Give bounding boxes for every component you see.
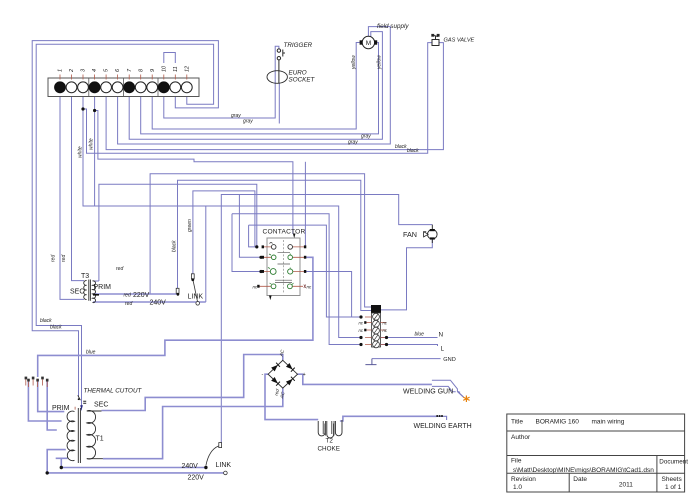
wire 220V bus: [47, 472, 223, 474]
svg-text:Date: Date: [573, 476, 587, 483]
wire T3 prim top riser: [93, 184, 257, 281]
fan symbol: [424, 225, 438, 243]
wire t3 white down to mid bus: [83, 93, 361, 338]
wire green loop LINK to contactor row1: [193, 191, 255, 275]
wire T1 link riser loop to fan: [221, 195, 432, 444]
svg-text:SEC: SEC: [94, 402, 108, 409]
svg-text:LINK: LINK: [188, 294, 204, 301]
title block frame: [507, 414, 685, 492]
gas valve: [432, 34, 439, 45]
svg-text:+: +: [303, 372, 306, 378]
euro socket ellipse: [267, 71, 287, 84]
wire T3 prim 220V tap: [93, 293, 177, 295]
wire T3 prim 240V tap: [93, 301, 206, 303]
junction dot t3: [81, 107, 84, 110]
svg-text:blue: blue: [415, 332, 425, 338]
svg-text:Document: Document: [659, 459, 688, 466]
svg-text:SOCKET: SOCKET: [289, 77, 316, 84]
svg-text:TRIGGER: TRIGGER: [284, 42, 313, 49]
wire GND: [372, 358, 441, 360]
welding gun: [432, 380, 464, 397]
LINK switch upper: [191, 274, 199, 305]
wire t8 to motor right brush: [141, 43, 379, 134]
wire t9 to motor left brush: [152, 43, 359, 130]
svg-text:Author: Author: [511, 434, 531, 441]
svg-text:T1: T1: [96, 436, 104, 443]
motor M: [360, 36, 378, 48]
svg-text:220V: 220V: [188, 475, 205, 482]
svg-text:black: black: [407, 148, 419, 154]
svg-text:EURO: EURO: [289, 70, 307, 77]
jumper terminal 10-11: [164, 53, 176, 64]
svg-text:PRIM: PRIM: [94, 284, 112, 291]
bus junction dots: [60, 466, 63, 469]
welding earth clamp: [436, 415, 446, 420]
wire t4 branch to contactor top: [95, 111, 293, 235]
svg-text:Revision: Revision: [511, 476, 536, 483]
contactor row4 nc contacts: [257, 283, 306, 289]
svg-text:10: 10: [161, 65, 167, 72]
wire trigger lower to euro socket: [278, 60, 280, 84]
wire T1 sec top to bridge AC top: [102, 355, 283, 411]
terminal number ticks: [60, 75, 187, 80]
contactor junction dots: [255, 245, 258, 248]
ground symbol: [365, 359, 376, 365]
svg-text:field supply: field supply: [377, 23, 409, 30]
wire t6 to field supply outer: [118, 27, 391, 144]
svg-text:black: black: [40, 318, 52, 324]
thermal cutout symbol: [75, 395, 86, 410]
svg-text:T3: T3: [81, 273, 89, 280]
svg-text:nc: nc: [253, 285, 259, 290]
svg-text:red: red: [116, 266, 123, 272]
T3 transformer: [84, 280, 96, 303]
svg-text:CHOKE: CHOKE: [318, 446, 340, 453]
contactor top pin arrow: [293, 234, 296, 239]
T3 prim 220V tap mark: [93, 294, 99, 296]
svg-text:green: green: [187, 219, 193, 232]
connector pins: [25, 377, 49, 387]
svg-text:s\Matt\Desktop\MINE\migs\BORAM: s\Matt\Desktop\MINE\migs\BORAMIG\tCad1.d…: [513, 467, 654, 474]
svg-text:gray: gray: [231, 113, 241, 119]
svg-text:red: red: [61, 255, 67, 262]
svg-text:red: red: [51, 255, 57, 262]
terminal numbers: [58, 65, 191, 73]
svg-text:N: N: [439, 332, 444, 339]
svg-text:2011: 2011: [619, 482, 633, 489]
wire bridge plus to welding gun: [298, 374, 432, 384]
svg-text:BORAMIG 160: BORAMIG 160: [536, 419, 580, 426]
svg-text:gray: gray: [243, 119, 253, 125]
wire t5 to gas valve right: [106, 43, 443, 150]
svg-text:GND: GND: [443, 357, 455, 363]
svg-text:WELDING EARTH: WELDING EARTH: [414, 423, 472, 430]
svg-text:WELDING GUN: WELDING GUN: [403, 389, 453, 396]
svg-text:red: red: [125, 301, 132, 307]
terminal circles 1-12: [55, 82, 193, 93]
wire contactor row1 right riser: [304, 162, 306, 247]
wire mid bus drop to 240V line: [205, 206, 207, 302]
wire t7 to field supply inner: [129, 32, 382, 140]
svg-text:Title: Title: [511, 419, 523, 426]
wire t10 to trigger: [164, 46, 279, 118]
mains block junction dots: [359, 315, 388, 346]
wire mains N row: [381, 337, 438, 339]
svg-text:Sheets: Sheets: [662, 476, 683, 483]
svg-text:2: 2: [69, 69, 75, 73]
svg-text:-: -: [262, 372, 264, 378]
svg-text:1: 1: [58, 69, 64, 72]
svg-text:4: 4: [92, 69, 98, 72]
T1 core: [78, 408, 80, 463]
svg-text:black: black: [395, 144, 407, 150]
wire t2 to T3 SEC top: [72, 93, 85, 281]
wire t12 inner loop to thermal cutout: [36, 44, 213, 410]
wire 240V bus: [61, 467, 206, 469]
wire black loop to 220V contact: [178, 180, 372, 310]
mains block left stubs: [364, 317, 371, 345]
svg-text:File: File: [511, 458, 522, 465]
wire blue contactor row2 right to connector pin: [38, 257, 313, 377]
wire t11 outer loop to thermal cutout: [32, 41, 218, 396]
wire branch to contactor row2 left: [239, 195, 261, 258]
choke coil: [318, 420, 342, 438]
contactor bottom pin arrow: [269, 296, 272, 301]
LINK switch lower: [204, 443, 227, 475]
wire euro socket to bundle: [278, 83, 280, 124]
wire loop contactor row1 to mains block row1: [249, 225, 361, 317]
wire fan bottom to block cap right: [381, 240, 432, 310]
svg-text:12: 12: [184, 66, 190, 72]
svg-text:240V: 240V: [150, 300, 167, 307]
wire t1 to T3 SEC bottom: [60, 93, 84, 300]
svg-text:11: 11: [173, 66, 179, 72]
wire pin2 to T1 prim tap2: [28, 380, 61, 421]
svg-text:9: 9: [150, 69, 156, 72]
bridge rectifier: [268, 360, 297, 388]
svg-text:220V: 220V: [133, 292, 150, 299]
svg-text:THERMAL CUTOUT: THERMAL CUTOUT: [84, 388, 143, 395]
junction dot t4: [93, 109, 96, 112]
svg-text:nc: nc: [307, 285, 313, 290]
wire bridge minus to choke: [265, 374, 318, 419]
220V link contact: [176, 288, 179, 295]
svg-text:L: L: [441, 346, 445, 353]
mains terminal block: [371, 305, 381, 348]
svg-text:M: M: [366, 40, 371, 47]
trigger switch: [277, 49, 285, 60]
svg-text:1 of 1: 1 of 1: [665, 484, 682, 491]
wire pin6 to T1 prim tap3: [47, 380, 57, 430]
mains block right stubs: [381, 323, 387, 345]
wire mains L row: [381, 345, 438, 347]
svg-text:white: white: [89, 138, 95, 150]
svg-text:black: black: [172, 240, 178, 252]
wire loop to contactor row3 and mains L row: [232, 214, 361, 345]
svg-text:T2: T2: [326, 437, 334, 444]
svg-text:main wiring: main wiring: [592, 419, 625, 426]
contactor row3 contacts: [262, 268, 307, 275]
svg-text:yellow: yellow: [351, 55, 357, 70]
svg-text:gray: gray: [348, 140, 358, 146]
svg-text:LINK: LINK: [216, 462, 232, 469]
svg-text:PRIM: PRIM: [52, 405, 70, 412]
wire T1 prim bottom to 240V bus: [56, 458, 68, 467]
svg-text:yellow: yellow: [377, 55, 383, 70]
svg-text:FAN: FAN: [403, 230, 417, 239]
wire loop 220V tap to mains block cap: [150, 174, 371, 307]
wire T1 prim tap4 to 220V bus: [47, 450, 66, 473]
svg-text:red: red: [124, 293, 131, 299]
svg-text:CONTACTOR: CONTACTOR: [263, 229, 306, 236]
contactor row2 contacts: [262, 254, 307, 260]
welding gun spark: [463, 396, 469, 403]
wire T1 sec bottom to bridge AC bottom: [103, 388, 283, 459]
svg-text:1.0: 1.0: [513, 484, 522, 491]
svg-text:black: black: [50, 325, 62, 331]
contactor box: [267, 238, 300, 296]
wire pin4 to T1 prim tap1: [38, 380, 65, 412]
wire contactor row3 right to block cap: [305, 272, 361, 318]
svg-text:GAS VALVE: GAS VALVE: [444, 38, 475, 44]
svg-text:gray: gray: [361, 134, 371, 140]
svg-text:blue: blue: [86, 350, 96, 356]
T1 transformer primary coil: [67, 411, 74, 461]
wire choke to welding earth: [340, 416, 437, 421]
title block text: [511, 419, 688, 492]
wire t3 branch to gas valve left: [83, 43, 432, 154]
svg-text:SEC: SEC: [70, 289, 84, 296]
contactor row1 contacts: [262, 243, 307, 250]
T1 secondary coil: [87, 411, 103, 459]
wire t4 white down joining mid bus: [94, 93, 96, 206]
terminal strip box: [48, 78, 199, 97]
svg-text:white: white: [78, 146, 84, 158]
svg-text:240V: 240V: [182, 463, 199, 470]
